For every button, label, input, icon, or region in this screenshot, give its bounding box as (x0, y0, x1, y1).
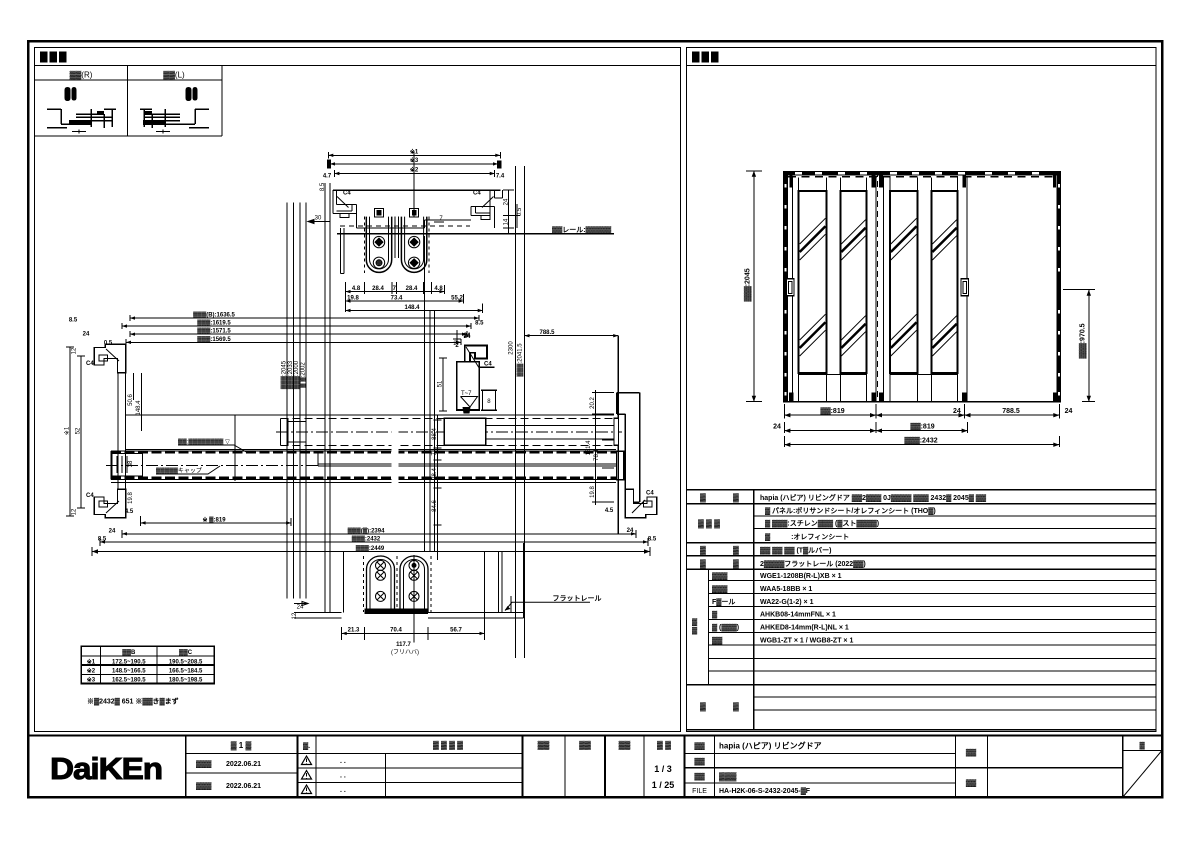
roller assembly 2 bolt (410, 209, 419, 218)
floor line right (428, 612, 523, 618)
svg-text:▓▓▓:2041.5: ▓▓▓:2041.5 (517, 343, 524, 377)
dim line hoshi3 (330, 161, 498, 168)
guide channel dashed sides (364, 556, 432, 612)
upper door inner lines right (486, 426, 619, 440)
roller assembly 2 wheels (408, 236, 419, 247)
stile verticals top (799, 178, 958, 192)
svg-text:hapia (ハピア) リビングドア: hapia (ハピア) リビングドア (719, 741, 822, 751)
dim 788.5 (525, 336, 619, 534)
rail step tick 7 (434, 221, 444, 223)
svg-text:▓: ▓ (692, 627, 698, 635)
縮尺 divider (643, 736, 645, 798)
svg-text:2022.06.21: 2022.06.21 (226, 783, 261, 790)
rev col divider (297, 736, 299, 798)
left jamb bottom chamfer (106, 501, 119, 513)
svg-text:▓: ▓ (692, 618, 698, 626)
svg-text:7.4: 7.4 (496, 174, 505, 180)
件名 label divider (987, 736, 989, 798)
svg-text:788.5: 788.5 (539, 330, 555, 336)
lower door heavy line top (111, 451, 623, 453)
right jamb bottom cap (625, 489, 656, 518)
svg-text:hapia (ハピア) リビングドア ▓▓2▓▓▓ 0: hapia (ハピア) リビングドア ▓▓2▓▓▓ 0J▓▓▓▓ ▓▓▓ 243… (760, 493, 987, 502)
svg-text:24: 24 (1065, 408, 1073, 415)
glass hatch d2p1 (891, 218, 917, 356)
right jamb profile plan (617, 393, 640, 502)
svg-text:▓▓▓:1619.5: ▓▓▓:1619.5 (197, 320, 231, 327)
svg-text:28.4: 28.4 (372, 286, 384, 292)
svg-text:. .: . . (340, 773, 346, 780)
svg-text:▓ パネル:ポリサンドシート/オレフィンシート (THO▓): ▓ パネル:ポリサンドシート/オレフィンシート (THO▓) (765, 506, 936, 515)
No. col divider (315, 736, 317, 798)
rail floor dashes (340, 225, 470, 227)
left head profile notch (340, 213, 349, 217)
glass pane d2p1 (890, 191, 918, 373)
svg-text:WA22-G(1-2) × 1: WA22-G(1-2) × 1 (760, 599, 814, 606)
head lower dashed line (788, 176, 1056, 178)
svg-text:51: 51 (437, 380, 443, 387)
svg-text:▓▓(L): ▓▓(L) (163, 71, 185, 81)
svg-text:C4: C4 (343, 191, 351, 197)
svg-text:2300: 2300 (509, 341, 515, 355)
svg-text:▓ (▓▓▓): ▓ (▓▓▓) (712, 624, 739, 632)
left jamb top chamfer (106, 349, 119, 361)
projection lines height labels (287, 203, 306, 599)
bottom width dim row1 2394 (122, 530, 636, 538)
svg-text:▓▓(R): ▓▓(R) (70, 71, 93, 81)
svg-text:▓▓ ▓▓ ▓▓ (T▓ルバー): ▓▓ ▓▓ ▓▓ (T▓ルバー) (760, 547, 832, 555)
mini table verticals (101, 646, 157, 683)
svg-text:DaiKEn: DaiKEn (50, 751, 162, 786)
post labels (439, 358, 447, 411)
svg-text:8.5: 8.5 (320, 182, 326, 191)
gap wall between rollers (395, 217, 398, 258)
dim arrowheads (100, 154, 648, 636)
svg-text:▓▓▓:1571.5: ▓▓▓:1571.5 (197, 328, 231, 335)
svg-text:▓▓: ▓▓ (694, 742, 705, 750)
lower door left edge (110, 451, 112, 480)
hanger mark far right (1053, 175, 1056, 187)
left jamb bottom profile (94, 489, 125, 518)
svg-text:▓▓▓: ▓▓▓ (719, 772, 737, 782)
svg-text:180.5~198.5: 180.5~198.5 (169, 678, 203, 684)
post funnel detail (461, 397, 478, 408)
frame soffit line upper (126, 414, 614, 416)
pull cap rect (112, 454, 143, 477)
svg-text:24: 24 (504, 198, 510, 205)
svg-text:※1: ※1 (64, 426, 71, 435)
right jamb chamfer C4 (632, 500, 645, 513)
handle door2 (961, 279, 969, 296)
svg-text:※ ▓:819: ※ ▓:819 (202, 515, 226, 523)
svg-text:T~7: T~7 (461, 391, 472, 397)
pull cap hatches (117, 456, 127, 473)
left jamb face lines (118, 373, 126, 490)
svg-text:117.7: 117.7 (396, 642, 411, 648)
door stop post body (457, 362, 480, 411)
top section dim ticks (346, 282, 483, 313)
svg-text:4.5: 4.5 (125, 509, 134, 515)
頁 header rule (1123, 750, 1162, 752)
svg-text:▓▓▓: ▓▓▓ (196, 782, 212, 790)
right head profile shelf (471, 206, 495, 215)
svg-text:▓▓▓(B):1636.5: ▓▓▓(B):1636.5 (193, 312, 235, 319)
svg-text:4.7: 4.7 (323, 174, 332, 180)
svg-text:▓.: ▓. (303, 742, 310, 750)
svg-text:▓▓: ▓▓ (619, 741, 631, 751)
left panel header text 断面図 (40, 52, 67, 63)
upper band left end cap (288, 418, 306, 445)
bottom frame line (783, 401, 1061, 403)
svg-text:0.5: 0.5 (517, 207, 523, 216)
left jamb solid column (783, 175, 788, 401)
spec table 品番 row rules (709, 581, 1157, 671)
right drawing panel border (687, 48, 1157, 732)
top section dim row3 (346, 310, 483, 312)
svg-text:▓▓▓:970.5: ▓▓▓:970.5 (1079, 323, 1087, 358)
stacked width dim row D 1569.5 (126, 339, 461, 345)
approve col divider (522, 736, 524, 798)
lower door band top (111, 450, 623, 452)
left guard wall (341, 228, 344, 274)
rev history inner divider (385, 754, 387, 798)
svg-text:▓: ▓ (700, 546, 706, 556)
svg-text:148.5~166.5: 148.5~166.5 (112, 669, 146, 675)
svg-text:12: 12 (72, 508, 78, 515)
svg-text:▓▓▓:2045: ▓▓▓:2045 (744, 268, 752, 301)
svg-text:▓▓▓:1569.5: ▓▓▓:1569.5 (197, 336, 231, 343)
title block top rule (28, 735, 1162, 737)
door1 edges (793, 178, 876, 402)
svg-text:▓▓▓:2432: ▓▓▓:2432 (352, 535, 381, 542)
bottom feet (789, 393, 794, 402)
lower door heavy line bottom (111, 477, 623, 479)
door rail connector lines (799, 374, 958, 376)
svg-text:131.4: 131.4 (586, 440, 592, 456)
hanger mark center pair (871, 175, 875, 187)
plan dim 50.6 148.4 (134, 373, 142, 431)
svg-text:HA-H2K-06-S-2432-2045-▓F: HA-H2K-06-S-2432-2045-▓F (719, 787, 811, 795)
svg-text:C4: C4 (86, 493, 94, 499)
top section dim row1 (346, 291, 445, 293)
right jamb dims rotated (592, 390, 614, 505)
dim handle height 970.5 line (1063, 290, 1095, 402)
lower door band bottom (111, 479, 623, 481)
dashed guides around rollers (365, 217, 429, 273)
lower door center dashdot (106, 465, 318, 467)
svg-text:WGB1-ZT × 1 / WGB8-ZT × 1: WGB1-ZT × 1 / WGB8-ZT × 1 (760, 637, 853, 644)
floor verticals right (485, 543, 524, 640)
drawing break gap (392, 416, 399, 484)
svg-text:78.4: 78.4 (594, 449, 600, 461)
svg-text:▓▓▓: ▓▓▓ (712, 572, 728, 580)
roller assembly 1 wheels (373, 236, 384, 247)
projection line pair left (325, 183, 330, 612)
center cluster verticals (424, 236, 434, 552)
right jamb pocket verticals (618, 336, 620, 534)
svg-text:2▓▓▓▓フラットレール (2022▓▓): 2▓▓▓▓フラットレール (2022▓▓) (760, 560, 866, 568)
svg-text:8.5: 8.5 (648, 537, 657, 543)
svg-text:▓▓: ▓▓ (579, 741, 591, 751)
glass hatch d2p2 (932, 220, 956, 356)
center line below (413, 555, 415, 642)
svg-text:▓ ▓: ▓ ▓ (657, 741, 671, 751)
wall end vertical (234, 415, 236, 481)
svg-text:190.5~208.5: 190.5~208.5 (169, 659, 203, 665)
upper door band left cap (280, 418, 282, 445)
left jamb top profile (94, 344, 125, 373)
title block divider DAIKEN/rev (185, 736, 187, 798)
spec table sub-label divider (708, 569, 710, 685)
right panel header rule (687, 65, 1157, 67)
svg-text:FILE: FILE (692, 788, 707, 795)
svg-text:52: 52 (76, 427, 82, 434)
guide channel 1 (367, 556, 395, 612)
svg-text:▓▓B: ▓▓B (122, 649, 136, 656)
mini schematic L cell glyph top (186, 87, 198, 101)
svg-text:4.5: 4.5 (605, 508, 614, 514)
svg-text:▓: ▓ (700, 702, 706, 712)
svg-text:▓▓▓: ▓▓▓ (196, 760, 212, 768)
dim 819 plan (141, 516, 292, 526)
floor verticals left (343, 552, 345, 612)
door2 trailing dashed line (966, 176, 968, 402)
glass hatch d1p1 (800, 218, 826, 356)
svg-text:※3: ※3 (87, 676, 96, 684)
svg-text:▓▓▓:2033: ▓▓▓:2033 (287, 360, 294, 389)
rev table 第1版 rules (186, 754, 298, 773)
guide channel 2 (400, 556, 428, 612)
left chamfer C4 (337, 197, 349, 208)
作成 divider (604, 736, 606, 798)
projection pair right 2300 (516, 166, 525, 658)
right jamb solid column (1057, 171, 1062, 402)
dim line hoshi2 (334, 170, 494, 177)
svg-text:162.5~180.5: 162.5~180.5 (112, 678, 146, 684)
frame line above lower band (126, 449, 616, 451)
svg-text:WGE1-1208B(R-L)XB × 1: WGE1-1208B(R-L)XB × 1 (760, 573, 842, 580)
svg-text:▓: ▓ (733, 702, 739, 712)
svg-text:12: 12 (292, 612, 298, 619)
svg-text:▓▓▓(▓):2394: ▓▓▓(▓):2394 (348, 527, 386, 534)
spec table outer rules (687, 490, 1156, 730)
svg-text:24: 24 (83, 332, 90, 338)
svg-text:▓▓: ▓▓ (538, 741, 550, 751)
ceiling line (333, 189, 501, 191)
rev history rules (298, 754, 523, 783)
svg-text:▓▓:819: ▓▓:819 (820, 407, 844, 415)
svg-text:C4: C4 (484, 362, 492, 368)
hanger mark left (790, 175, 793, 187)
svg-text:C4: C4 (473, 191, 481, 197)
svg-text:788.5: 788.5 (1002, 408, 1020, 415)
svg-text:38: 38 (128, 460, 134, 467)
black flag left (327, 160, 331, 169)
svg-text:12: 12 (72, 347, 78, 354)
frame line below lower band (111, 482, 616, 484)
svg-text:8.5: 8.5 (475, 321, 484, 327)
svg-text:148.4: 148.4 (404, 305, 420, 311)
svg-text:148.4: 148.4 (136, 400, 142, 416)
mini table border (81, 646, 214, 683)
door2 edges (884, 178, 967, 402)
svg-text:28.4: 28.4 (432, 468, 438, 480)
svg-text:84.6: 84.6 (432, 500, 438, 512)
left panel header rule (35, 65, 681, 67)
dim height 2045 line (746, 171, 762, 402)
roller assembly 2 center line (413, 152, 415, 217)
left drawing panel border (35, 48, 681, 732)
svg-text:WAA5-18BB × 1: WAA5-18BB × 1 (760, 586, 812, 593)
stacked width dim row A 1636.5 (130, 315, 479, 321)
svg-text:24: 24 (773, 423, 781, 430)
svg-text:▓▓▓▓▓キャップ: ▓▓▓▓▓キャップ (156, 468, 202, 475)
svg-text:28.4: 28.4 (406, 286, 418, 292)
svg-text:▓ ▓▓▓:スチレン▓▓▓ (▓スト▓▓▓▓): ▓ ▓▓▓:スチレン▓▓▓ (▓スト▓▓▓▓) (765, 520, 879, 528)
stacked width dim row B 1619.5 (122, 323, 471, 329)
post chamfer diagonal (466, 347, 480, 369)
svg-text:▓▓▓:2432: ▓▓▓:2432 (904, 436, 937, 444)
svg-text:20.2: 20.2 (590, 397, 596, 409)
svg-text:166.5~184.5: 166.5~184.5 (169, 669, 203, 675)
roller assembly 1 body (366, 217, 391, 273)
svg-text:24: 24 (109, 528, 116, 534)
bottom dim row (342, 627, 485, 640)
page diagonal (1123, 751, 1161, 797)
post bottom thick line (457, 409, 480, 411)
upper door band dashed bottom (281, 444, 619, 446)
stile verticals bottom (799, 373, 958, 402)
svg-text:▓▓: ▓▓ (966, 749, 977, 757)
svg-text:8.5: 8.5 (69, 318, 78, 324)
stacked width dim row C 1571.5 (130, 331, 467, 337)
hanger mark right stile (962, 175, 966, 187)
glass pane d1p2 (840, 191, 866, 373)
center meeting dashed line (876, 171, 878, 402)
svg-text:▓▓:819: ▓▓:819 (910, 422, 934, 430)
svg-text:30: 30 (315, 216, 322, 222)
right head profile wall (490, 190, 502, 228)
spec table thin row rules 仕上げ (754, 516, 1157, 529)
svg-text:▓▓: ▓▓ (712, 636, 723, 644)
glass hatch d1p2 (841, 220, 865, 356)
svg-text:56.7: 56.7 (450, 628, 462, 634)
name label col divider (714, 736, 716, 798)
floor line left (294, 612, 342, 618)
svg-text:1 / 3: 1 / 3 (654, 764, 672, 774)
svg-text:C4: C4 (86, 361, 94, 367)
svg-text:. .: . . (340, 758, 346, 765)
dim line hoshi1 (328, 152, 500, 159)
right head profile notch (481, 215, 490, 219)
svg-text:▓: ▓ (712, 611, 718, 619)
svg-text:14: 14 (504, 218, 510, 225)
left head profile shelf (333, 205, 357, 228)
guide channel 2 screws (409, 560, 419, 570)
svg-text:▓▓: ▓▓ (966, 779, 977, 787)
right panel header text 正面図 (692, 52, 719, 63)
svg-text:. .: . . (340, 787, 346, 794)
svg-text:▓▓: ▓▓ (694, 773, 705, 781)
svg-text:▓▓▓: ▓▓▓ (712, 585, 728, 593)
mini table top-left grid (35, 66, 222, 137)
svg-text:フラットレール: フラットレール (553, 595, 602, 603)
svg-text:▓▓C: ▓▓C (179, 649, 193, 656)
svg-text:AHKED8-14mm(R-L)NL × 1: AHKED8-14mm(R-L)NL × 1 (760, 625, 849, 632)
rail floor left segment (357, 220, 471, 228)
mini table row rules (81, 655, 214, 657)
svg-text:▓: ▓ (733, 559, 739, 569)
svg-text:※▓2432▓ 651 ※▓▓き▓まず: ※▓2432▓ 651 ※▓▓き▓まず (87, 697, 179, 706)
left head profile wall (333, 190, 337, 213)
handle door1 (786, 279, 794, 296)
svg-text:▓ ▓:2002: ▓ ▓:2002 (300, 362, 307, 388)
svg-text:C4: C4 (646, 491, 654, 497)
svg-text:※1: ※1 (87, 657, 96, 665)
svg-text:(フリハバ): (フリハバ) (391, 649, 419, 656)
svg-text:▓: ▓ (733, 546, 739, 556)
mini schematic R cell glyph top (65, 87, 77, 101)
door stop post hook (465, 346, 487, 370)
right chamfer C4 (482, 197, 494, 208)
bottom dim row3 line (784, 436, 1059, 447)
lower door right cap (617, 451, 624, 480)
svg-text:70.4: 70.4 (390, 628, 402, 634)
svg-text:AHKB08-14mmFNL × 1: AHKB08-14mmFNL × 1 (760, 612, 836, 619)
svg-text:▓▓▓:2449: ▓▓▓:2449 (356, 545, 385, 552)
svg-text:▓: ▓ (700, 559, 706, 569)
svg-text:▓: ▓ (1139, 742, 1145, 750)
dim 30 arrow (308, 220, 330, 224)
warning triangle 1 (302, 756, 312, 765)
svg-text:19.8: 19.8 (590, 486, 596, 498)
bottom dim row1 line (784, 404, 1059, 419)
lower door edge double lines (318, 452, 623, 466)
svg-text:▓: ▓ (700, 493, 706, 503)
svg-text:F▓ール: F▓ール (712, 598, 735, 606)
hanger rail leader line (337, 233, 614, 235)
svg-text:50.6: 50.6 (128, 394, 134, 406)
svg-text:▓▓: ▓▓ (694, 758, 705, 766)
svg-text:172.5~190.5: 172.5~190.5 (112, 659, 146, 665)
upper door right cap in pocket (614, 418, 619, 445)
roller assembly 1 bolt (375, 209, 384, 218)
svg-text:▓▓:▓▓▓▓▓▓▓▓ ▽: ▓▓:▓▓▓▓▓▓▓▓ ▽ (178, 439, 230, 446)
left mid dims labels column (434, 415, 442, 560)
svg-text:※2: ※2 (87, 667, 96, 675)
bottom width dim row2 2432 (100, 538, 648, 546)
svg-text:19.8: 19.8 (128, 492, 134, 504)
upper door band dashed top (281, 417, 619, 419)
name col divider (684, 736, 686, 798)
glass pane d2p2 (931, 191, 957, 373)
svg-text:▓ :オレフィンシート: ▓ :オレフィンシート (765, 533, 849, 541)
base plate black (365, 609, 429, 614)
svg-text:24: 24 (953, 408, 961, 415)
svg-text:88.4: 88.4 (432, 428, 438, 440)
件名 divider (955, 736, 957, 798)
svg-text:▓ ▓ ▓ ▓: ▓ ▓ ▓ ▓ (433, 741, 463, 751)
svg-text:4.8: 4.8 (352, 286, 361, 292)
upper door band center dashdot (276, 431, 622, 433)
svg-text:▓▓▓:2045: ▓▓▓:2045 (281, 360, 288, 389)
page col divider (1122, 736, 1124, 798)
bottom width dim row3 2449 (92, 547, 650, 556)
name rules (685, 754, 1123, 784)
svg-text:▓: ▓ (733, 493, 739, 503)
roller assembly 2 body (401, 217, 426, 273)
left outer dim line (66, 347, 85, 516)
svg-text:1 / 25: 1 / 25 (652, 780, 675, 790)
